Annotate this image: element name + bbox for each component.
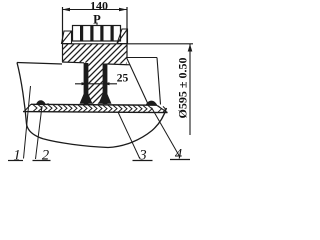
extension line right / block right edge: [126, 7, 128, 58]
dimension 140 left arrow: [62, 8, 70, 11]
pad plate top line: [31, 103, 157, 106]
pad plate right bevel: [157, 105, 168, 112]
right gusset right edge: [157, 58, 161, 105]
right gusset slanted left edge: [127, 58, 149, 105]
block section hatch: [2, 38, 164, 104]
dimension 25 right arrow: [103, 82, 110, 85]
label 2 underline: [33, 160, 51, 162]
right gusset top edge: [127, 57, 157, 59]
dimension 140 right arrow: [119, 8, 127, 11]
comb rib 1: [80, 26, 83, 42]
load tick under P: [96, 23, 98, 26]
dimension 25 left arrow: [82, 82, 89, 85]
svg-text:Ø595 ± 0.50: Ø595 ± 0.50: [175, 58, 189, 119]
right rib stud (sectioned): [103, 64, 108, 105]
comb rib 2: [90, 26, 93, 42]
leader line 3: [118, 112, 140, 158]
leader line 1: [24, 86, 31, 159]
label 4 underline: [170, 159, 190, 161]
block bottom right edge: [107, 63, 130, 66]
svg-text:140: 140: [90, 0, 108, 13]
weld bead at plate right end: [146, 101, 158, 106]
block top line with extension to diameter dimension: [62, 43, 193, 45]
svg-text:2: 2: [42, 148, 49, 164]
dimension 140 line: [62, 9, 127, 11]
comb rib 4: [111, 26, 114, 42]
weld bead at plate left end: [36, 100, 49, 104]
right wedge hatch: [117, 29, 128, 44]
dimension 25 line: [75, 83, 117, 85]
comb rib 3: [100, 26, 103, 42]
left rib weld fillet: [80, 94, 93, 104]
left wedge: [62, 31, 72, 44]
right wedge: [117, 29, 128, 44]
leader line 4: [152, 108, 180, 156]
leader line 2: [36, 106, 43, 159]
svg-text:25: 25: [117, 73, 129, 85]
shell top outline: [17, 63, 62, 65]
ribbed pressure comb outline: [73, 26, 121, 42]
label 3 underline: [133, 160, 153, 162]
svg-text:4: 4: [175, 147, 182, 163]
diameter dimension arrow: [188, 44, 193, 52]
pad plate left bevel: [24, 104, 31, 111]
left rib stud (sectioned): [84, 63, 89, 104]
svg-text:3: 3: [138, 148, 146, 164]
shell break line left and bottom: [17, 63, 167, 148]
svg-text:1: 1: [13, 148, 20, 164]
left wedge hatch: [62, 31, 72, 44]
label 1 underline: [8, 160, 23, 162]
diameter dimension line: [189, 44, 191, 135]
right rib weld fillet: [99, 94, 112, 104]
extension line left / block left edge: [62, 7, 64, 62]
block bottom left edge: [62, 61, 84, 64]
pad plate bottom line: [23, 112, 168, 113]
pad plate chevron hatch: [33, 105, 166, 113]
